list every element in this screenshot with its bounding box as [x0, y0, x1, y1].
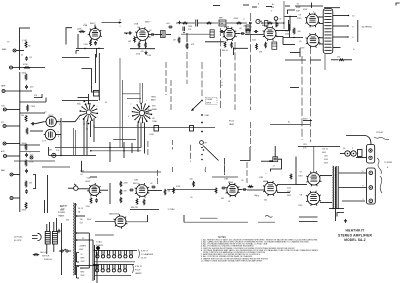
wire tap 4 — [333, 36, 348, 38]
capacitor C2 — [94, 41, 97, 45]
wire — [82, 171, 162, 173]
svg-text:2.2M: 2.2M — [147, 55, 151, 57]
svg-text:TUN: TUN — [1, 105, 5, 107]
rail 11 — [224, 158, 226, 175]
wire — [319, 23, 323, 25]
svg-text:TV: TV — [7, 41, 10, 43]
resistor R38 — [248, 186, 254, 188]
svg-text:6.3V TO: 6.3V TO — [135, 266, 143, 268]
svg-text:V7: V7 — [300, 172, 303, 174]
wire — [131, 143, 133, 153]
svg-text:1M: 1M — [173, 40, 176, 42]
svg-text:17.7VAC: 17.7VAC — [168, 208, 176, 211]
svg-text:XTL: XTL — [1, 122, 4, 124]
wire AC corner — [346, 136, 371, 145]
svg-text:G: G — [353, 49, 355, 51]
wire tap2 — [77, 232, 90, 234]
wire B+ — [126, 221, 147, 223]
wire — [186, 33, 188, 42]
wire — [247, 189, 265, 191]
svg-text:B+: B+ — [288, 122, 291, 124]
wire — [6, 125, 20, 127]
svg-text:1M: 1M — [21, 115, 24, 117]
capacitor C8 — [25, 85, 28, 89]
svg-text:INPUT: INPUT — [206, 102, 212, 104]
wire — [324, 54, 326, 70]
svg-text:TO: TO — [297, 4, 300, 6]
rail 4 — [201, 62, 203, 96]
svg-text:6AN8: 6AN8 — [263, 180, 268, 183]
wire — [329, 208, 344, 210]
wire bracket — [82, 69, 100, 93]
svg-text:8: 8 — [58, 136, 59, 138]
capacitor C4 — [150, 33, 154, 36]
wire loop — [271, 159, 282, 171]
capacitor C17 — [242, 188, 246, 191]
wire tap 16 — [333, 15, 349, 17]
svg-text:5V: 5V — [82, 238, 85, 240]
svg-text:4: 4 — [352, 37, 354, 39]
component dark — [265, 21, 268, 27]
svg-text:PH: PH — [205, 143, 208, 145]
svg-text:1200: 1200 — [252, 40, 256, 42]
capacitor C9a — [254, 30, 258, 33]
rail 5 — [220, 28, 222, 108]
wire stub — [266, 6, 272, 8]
jack J6 — [10, 173, 13, 176]
svg-text:1M: 1M — [128, 41, 131, 43]
wire — [90, 121, 92, 137]
tube V3B 6AN8 — [225, 183, 239, 197]
svg-text:1K: 1K — [228, 201, 231, 203]
wire — [127, 98, 141, 100]
ground — [344, 219, 347, 222]
resistor R11 — [224, 41, 226, 47]
svg-text:TONE: TONE — [152, 121, 158, 123]
svg-text:TRANS: TRANS — [58, 215, 65, 218]
wire — [290, 87, 299, 89]
jack tape out — [2, 90, 5, 93]
svg-text:V4B: V4B — [259, 177, 264, 179]
node — [84, 48, 86, 50]
svg-text:1/2: 1/2 — [137, 27, 139, 29]
resistor R23 — [25, 115, 27, 122]
svg-text:22K: 22K — [190, 179, 194, 181]
tube V2B 6EU7 — [135, 183, 150, 198]
resistor R18 — [338, 59, 344, 61]
capacitor can 1 — [77, 253, 80, 263]
wire input bus B — [19, 142, 21, 212]
wire corner — [240, 147, 250, 161]
node — [88, 123, 90, 125]
wire B+ — [184, 221, 248, 223]
wire — [319, 16, 323, 18]
wire — [5, 90, 32, 92]
resistor R1 — [25, 41, 27, 48]
wire — [68, 187, 74, 189]
wire — [313, 147, 315, 173]
svg-text:.02: .02 — [279, 18, 281, 20]
svg-text:V1-V8: V1-V8 — [141, 258, 146, 260]
wire — [56, 134, 61, 136]
wire — [61, 223, 63, 275]
svg-text:+40MFD: +40MFD — [79, 246, 87, 248]
wire — [319, 37, 323, 39]
wire — [119, 58, 121, 148]
svg-text:1: 1 — [59, 119, 60, 121]
brace h2 — [132, 265, 135, 274]
wire — [13, 67, 46, 69]
svg-text:TREB: TREB — [151, 97, 156, 99]
tube V7B 6EU7 — [44, 129, 58, 139]
wire — [277, 184, 296, 186]
wire — [335, 209, 337, 221]
component cathode box — [272, 42, 277, 49]
svg-text:4: 4 — [128, 116, 129, 118]
wire — [62, 56, 90, 58]
resistor R15 — [265, 42, 267, 48]
tube V1B 6EU7 — [87, 183, 101, 197]
wire — [44, 200, 46, 213]
svg-text:.05: .05 — [241, 180, 244, 182]
tube V5 EL84 — [305, 13, 320, 28]
svg-text:-117V: -117V — [60, 209, 66, 211]
wire — [95, 234, 114, 236]
wire — [98, 53, 100, 101]
wire — [298, 146, 340, 148]
wire — [144, 123, 146, 154]
wire bracket — [66, 28, 72, 45]
tube V4A 6AN8 — [263, 26, 278, 41]
rail 1 — [165, 62, 167, 95]
potentiometer R30 level — [52, 153, 56, 157]
svg-text:V1B: V1B — [87, 177, 92, 179]
wire — [78, 97, 89, 99]
tube V6B EL84 — [306, 191, 321, 206]
svg-text:STEREO AMPLIFIER: STEREO AMPLIFIER — [338, 233, 372, 237]
wire — [109, 183, 111, 204]
svg-text:4Ω SPKR A: 4Ω SPKR A — [362, 26, 373, 29]
svg-text:PILOT: PILOT — [229, 121, 235, 123]
svg-text:.003: .003 — [166, 23, 170, 25]
wire — [274, 146, 276, 157]
wire — [76, 47, 104, 49]
wire — [137, 123, 139, 153]
svg-text:1M: 1M — [152, 118, 155, 120]
wire — [234, 47, 249, 49]
component box — [154, 126, 159, 132]
svg-text:20: 20 — [81, 254, 83, 256]
wire — [47, 175, 49, 213]
rail 2 — [170, 80, 172, 110]
node — [126, 33, 128, 35]
svg-text:.02: .02 — [29, 57, 33, 59]
resistor R14 — [256, 43, 258, 49]
wire — [324, 7, 340, 9]
component shield box — [210, 30, 214, 38]
wire — [212, 176, 238, 178]
wire tap1 — [77, 215, 85, 217]
svg-text:470K: 470K — [136, 54, 141, 56]
resistor R36 — [164, 189, 166, 195]
terminal SP2 — [369, 186, 373, 190]
resistor R3 — [79, 31, 86, 33]
svg-text:FIL 5V: FIL 5V — [78, 208, 84, 210]
wire — [80, 267, 89, 269]
resistor R24 — [26, 128, 28, 135]
wire — [122, 93, 140, 95]
wire — [77, 34, 79, 48]
terminal AC2 — [369, 156, 372, 159]
resistor R19a — [182, 22, 188, 24]
switch deck circle — [200, 141, 204, 145]
svg-text:5: 5 — [30, 152, 31, 154]
rail 6 — [234, 42, 236, 110]
svg-text:2700: 2700 — [84, 44, 88, 46]
svg-text:BASS: BASS — [151, 99, 156, 102]
wire — [81, 161, 83, 172]
svg-text:S1B: S1B — [152, 105, 156, 107]
corner mark — [76, 51, 79, 54]
svg-text:560: 560 — [264, 200, 267, 202]
svg-text:700: 700 — [80, 219, 83, 221]
component bracket — [33, 175, 36, 189]
svg-text:117V AC: 117V AC — [14, 235, 23, 238]
svg-text:5AR4/GZ34: 5AR4/GZ34 — [109, 212, 120, 215]
terminal dark — [96, 246, 100, 250]
svg-text:TAPE: TAPE — [1, 85, 6, 88]
svg-text:7: 7 — [97, 117, 98, 119]
svg-text:7: 7 — [139, 29, 140, 31]
rectifier V9 GZ34 — [114, 214, 128, 229]
wire — [200, 217, 218, 219]
node — [109, 147, 111, 149]
svg-text:6EU7: 6EU7 — [86, 181, 91, 183]
corner mark — [396, 3, 400, 6]
svg-text:SUP: SUP — [296, 10, 301, 12]
wire — [276, 30, 290, 32]
wire — [88, 94, 90, 103]
svg-text:7189: 7189 — [297, 18, 301, 20]
node — [201, 147, 203, 149]
svg-text:27K: 27K — [188, 29, 192, 31]
wire — [109, 142, 111, 162]
svg-text:47K: 47K — [34, 95, 38, 97]
wire — [235, 33, 240, 35]
wire — [331, 59, 338, 61]
node — [83, 123, 84, 124]
svg-text:V2B: V2B — [134, 179, 139, 181]
svg-text:60 CPS: 60 CPS — [14, 240, 22, 242]
terminal bus — [357, 20, 359, 42]
wire hook — [34, 94, 42, 98]
svg-text:TO ALL: TO ALL — [96, 241, 102, 244]
svg-text:LAMPS: LAMPS — [135, 272, 142, 275]
svg-text:V: V — [271, 11, 273, 13]
resistor R6 — [138, 42, 140, 48]
wire — [299, 48, 301, 57]
wire — [123, 142, 125, 158]
resistor R grid — [215, 187, 217, 193]
wire — [288, 20, 290, 30]
svg-text:TUNER: TUNER — [206, 99, 213, 101]
svg-text:470K: 470K — [176, 186, 181, 188]
resistor sw — [33, 254, 40, 256]
terminal tuner2 — [201, 100, 203, 102]
wire — [20, 151, 40, 153]
svg-text:VOL: VOL — [56, 150, 59, 152]
rail 9 — [310, 46, 312, 142]
wire — [299, 221, 318, 223]
capacitor C8a — [274, 17, 278, 21]
wire tap B2 — [339, 187, 367, 189]
svg-text:100: 100 — [298, 31, 301, 33]
svg-text:47K: 47K — [124, 190, 128, 192]
svg-text:9: 9 — [149, 117, 150, 119]
terminal aux2 — [201, 122, 203, 124]
wire bracket — [48, 147, 50, 155]
svg-text:A: A — [222, 84, 224, 87]
svg-text:6EU7: 6EU7 — [133, 183, 138, 185]
component box2 — [190, 126, 194, 132]
wire top bus seg — [198, 22, 218, 24]
svg-text:V8: V8 — [300, 194, 303, 196]
wire — [20, 101, 46, 103]
wire — [57, 121, 61, 123]
transformer T3 HV winding — [72, 203, 75, 275]
wire — [311, 3, 313, 9]
rail 7 — [250, 13, 252, 110]
svg-text:V3A: V3A — [219, 22, 224, 25]
svg-text:2: 2 — [133, 36, 134, 38]
svg-text:5100: 5100 — [324, 159, 328, 161]
wire — [100, 189, 108, 191]
tube V2A 6EU7 — [135, 27, 150, 42]
terminal xtal2 — [201, 114, 203, 116]
wire — [245, 34, 264, 36]
brace — [380, 176, 382, 193]
jack J1 — [13, 49, 16, 52]
svg-text:47K: 47K — [191, 44, 195, 46]
svg-text:450V: 450V — [79, 249, 84, 251]
wire — [270, 124, 310, 126]
svg-text:115V: 115V — [324, 155, 329, 157]
wire — [205, 41, 224, 43]
capacitor C18 box — [273, 157, 278, 162]
wire — [289, 24, 291, 38]
svg-text:=: = — [266, 173, 267, 175]
heater bus 2 — [94, 264, 135, 266]
wire — [96, 252, 98, 283]
svg-text:4: 4 — [363, 199, 364, 201]
corner mark — [337, 213, 344, 217]
terminal phono2 — [201, 131, 203, 133]
wire — [320, 202, 332, 204]
terminal AC1 — [369, 149, 372, 152]
wire — [6, 109, 19, 111]
plug P1 — [32, 233, 41, 240]
wire top bus seg — [227, 22, 248, 24]
svg-text:4.7: 4.7 — [273, 165, 275, 167]
switch S1B — [132, 103, 152, 124]
svg-text:LAMP: LAMP — [229, 123, 235, 126]
terminal block AC — [367, 145, 375, 164]
transformer T1 output — [323, 9, 333, 54]
wire — [46, 224, 48, 232]
svg-text:.02: .02 — [80, 174, 83, 176]
resistor R22a dark — [293, 28, 295, 35]
resistor R22 — [27, 105, 29, 112]
squiggle mark — [265, 216, 273, 218]
svg-text:TO HEATERS: TO HEATERS — [141, 253, 154, 256]
wire — [53, 222, 55, 232]
wire — [340, 153, 345, 155]
resistor R33 — [120, 197, 122, 203]
svg-text:T: T — [222, 79, 223, 81]
wire — [42, 166, 70, 168]
svg-text:1M: 1M — [49, 150, 52, 152]
svg-text:680: 680 — [221, 198, 224, 200]
tube V1A 6EU7 — [88, 27, 102, 41]
wire — [83, 118, 85, 155]
svg-text:420: 420 — [271, 7, 274, 9]
svg-text:1M: 1M — [29, 182, 32, 184]
rail 8 — [301, 56, 303, 140]
svg-text:270K: 270K — [31, 106, 36, 108]
jack J2 — [10, 66, 13, 69]
resistor R32 — [120, 189, 122, 195]
rail 12 — [246, 162, 248, 183]
svg-text:5100: 5100 — [285, 30, 289, 32]
wire — [283, 1, 285, 29]
capacitor line — [58, 229, 61, 233]
svg-text:3: 3 — [58, 131, 59, 133]
squiggle — [204, 167, 207, 172]
transformer T3 primary — [45, 232, 50, 245]
wire — [147, 215, 149, 222]
svg-text:470K: 470K — [23, 64, 28, 66]
wire — [35, 122, 44, 124]
resistor R2 — [24, 67, 31, 69]
capacitor C9 — [31, 122, 35, 125]
wire feedback line — [102, 22, 120, 24]
svg-text:2: 2 — [97, 106, 98, 108]
svg-text:7189: 7189 — [298, 176, 302, 178]
component level box — [161, 31, 166, 38]
jack J5 — [3, 125, 6, 128]
wire — [295, 157, 297, 185]
wire stub — [243, 4, 249, 6]
svg-text:S1: S1 — [105, 102, 107, 104]
wire — [183, 215, 185, 222]
svg-text:350V: 350V — [81, 261, 86, 263]
switch S1A — [79, 103, 98, 121]
svg-text:PILOT: PILOT — [135, 270, 141, 272]
ground — [144, 51, 147, 54]
wire — [299, 216, 318, 218]
jack J9b — [4, 155, 7, 158]
svg-text:100K: 100K — [22, 73, 27, 75]
jack J4 — [3, 108, 6, 111]
svg-text:470K: 470K — [22, 210, 27, 212]
svg-text:MODEL SA-2: MODEL SA-2 — [344, 238, 365, 242]
svg-text:AUX: AUX — [1, 150, 5, 153]
wire — [95, 275, 131, 277]
svg-text:V3B: V3B — [224, 178, 229, 180]
wire — [345, 59, 353, 61]
svg-text:115V: 115V — [303, 144, 308, 146]
svg-text:REAR: REAR — [152, 108, 158, 111]
